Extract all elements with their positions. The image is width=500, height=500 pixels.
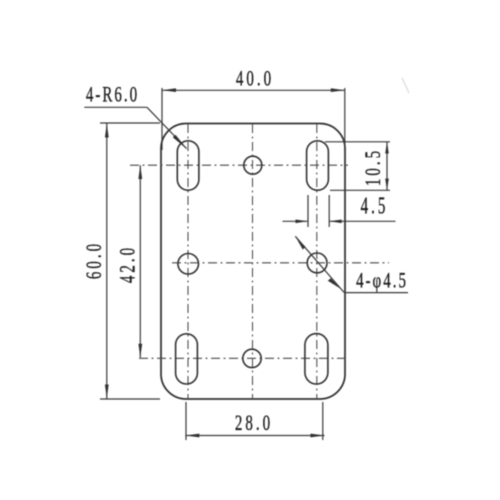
dimension 10.5 line [386,142,388,191]
dimension 4.5 left extension (slot left edge) [307,195,309,227]
plate outline (rounded rectangle 40x60, R6 corners) [161,124,345,400]
scan smudge top right [402,78,409,93]
label 4-R6.0 underline [84,106,147,108]
dimension 42.0 line [139,165,141,357]
hole bottom-center [243,349,261,367]
hole middle-right [307,253,327,273]
label 4-phi4.5 underline [344,292,408,294]
dimension 60.0 bottom extension [100,398,160,400]
label 4-phi4.5 lower arrow [328,278,341,289]
centerline V2 (middle hole column) [252,124,254,399]
dimension 60.0 bottom arrow [105,385,109,399]
svg-text:60.0: 60.0 [82,241,107,279]
dimension 40.0 left extension [161,88,163,150]
dimension 40.0 right extension [344,88,346,150]
dimension 10.5 top arrow [385,142,389,154]
label 4-R6.0 leader [147,107,187,148]
centerline H1 (top hole row) [130,164,348,166]
dimension 40.0 right arrow [331,88,345,92]
svg-text:10.5: 10.5 [361,148,386,186]
slot bottom-right [305,334,328,384]
centerline V1 (left hole column) [187,124,189,400]
dimension 10.5 bottom arrow [385,179,389,191]
svg-text:40.0: 40.0 [236,67,274,92]
dimension 4.5 right line [329,220,395,222]
label 4-phi4.5 leader [295,236,344,292]
dimension 4.5 left arrow [296,220,309,224]
dimension 10.5 bottom extension [330,189,390,191]
slot bottom-left [176,334,198,384]
svg-text:4.5: 4.5 [361,193,389,220]
dimension 4.5 left line [283,220,309,222]
svg-text:28.0: 28.0 [235,411,273,436]
centerline V3 (right hole column) [316,124,318,400]
hole top-center [244,156,262,174]
centerline H3 (bottom hole row) [139,357,344,359]
dimension 28.0 right arrow [311,434,325,438]
dimension 42.0 bottom arrow [138,344,142,358]
svg-text:4-R6.0: 4-R6.0 [86,83,139,108]
dimension 4.5 right extension (slot right edge) [328,195,330,227]
dimension 28.0 left arrow [185,434,199,438]
centerline H2 (middle hole row) [172,262,389,264]
dimension 28.0 left extension [185,402,187,440]
dimension 60.0 top extension [100,122,160,124]
slot top-left [177,141,199,190]
dimension 10.5 top extension [325,141,390,143]
svg-text:42.0: 42.0 [116,245,141,283]
dimension 28.0 line [185,435,324,437]
label 4-phi4.5 upper arrow [295,236,305,249]
slot top-right [307,141,329,190]
svg-text:4-φ4.5: 4-φ4.5 [356,269,408,294]
dimension 28.0 right extension [322,402,324,440]
dimension 60.0 line [106,124,108,399]
dimension 40.0 line [162,89,345,91]
dimension 42.0 top arrow [138,165,142,179]
dimension 60.0 top arrow [105,124,109,138]
hole middle-left [178,253,199,274]
dimension 4.5 right arrow [329,220,342,224]
label 4-R6.0 leader arrow [173,135,188,150]
dimension 40.0 left arrow [162,88,176,92]
